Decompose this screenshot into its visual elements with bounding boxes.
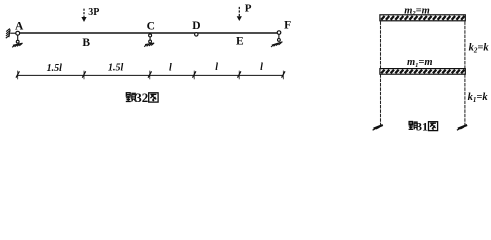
dimension ticks [16,71,285,80]
svg-text:k1=k: k1=k [468,92,489,104]
svg-text:m1=m: m1=m [407,57,433,69]
svg-text:F: F [284,20,291,32]
svg-text:31: 31 [416,119,428,133]
svg-text:1.5l: 1.5l [108,62,124,73]
pin F [277,31,281,35]
load 3P at B [81,7,99,22]
link support under A [12,35,22,47]
dimension line [18,74,284,76]
caption ti32tu: glyph tu [149,93,158,102]
frame middle girder m1 [380,69,465,75]
svg-text:3P: 3P [88,7,99,18]
beam AF [16,32,278,34]
svg-text:P: P [245,3,252,15]
fixed base right [457,125,467,130]
svg-text:l: l [169,62,172,73]
wall at A [6,29,16,39]
svg-text:l: l [215,62,218,73]
svg-text:A: A [15,21,24,33]
pin A [16,31,20,35]
frame right column [464,17,466,126]
svg-text:32: 32 [135,90,148,105]
frame left column [380,17,382,126]
frame top girder m2 [380,15,465,21]
hinge D [195,33,198,36]
svg-text:C: C [147,20,155,32]
svg-text:m2=m: m2=m [404,5,430,17]
caption ti32tu: glyph ti [126,93,136,102]
load P at E [237,3,252,21]
svg-text:1.5l: 1.5l [47,63,63,74]
caption ti31tu: glyph ti [409,121,418,129]
svg-text:E: E [236,36,244,48]
svg-text:k2=k: k2=k [469,42,490,54]
caption ti31tu: glyph tu [429,122,438,131]
svg-text:D: D [192,20,200,32]
svg-text:l: l [260,62,263,73]
svg-text:B: B [82,37,90,49]
link support at C [144,34,154,47]
fixed base left [373,125,383,130]
link support under F [271,34,283,47]
